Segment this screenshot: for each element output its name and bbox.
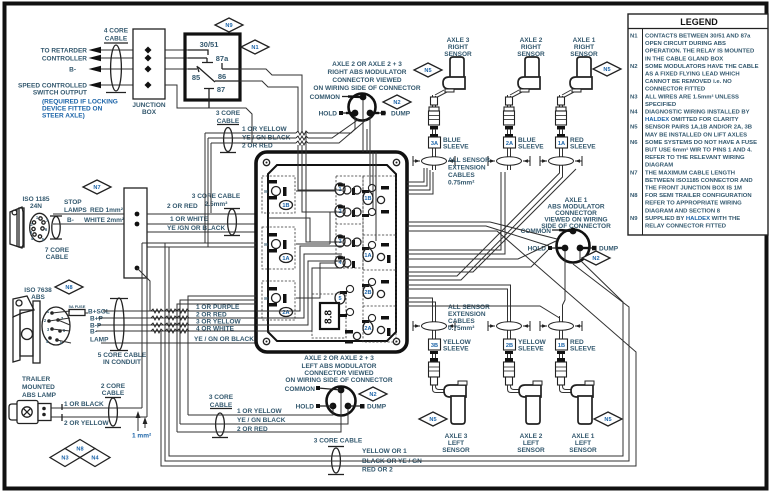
cable symbol 3core mid (212, 437, 228, 439)
svg-text:DUMP: DUMP (367, 404, 387, 411)
svg-text:1A: 1A (558, 141, 565, 147)
wire B-P (98, 324, 256, 326)
relay contact 86 (222, 63, 240, 69)
terminal group left3 (268, 287, 277, 291)
svg-text:ISO 7638: ISO 7638 (24, 287, 52, 294)
legend box (628, 14, 768, 235)
wire hold pin drop (308, 116, 355, 133)
svg-text:CONNECTOR FITTED: CONNECTOR FITTED (645, 87, 705, 93)
svg-text:AXLE 2: AXLE 2 (520, 433, 543, 440)
diamond N5 bottomright (594, 412, 622, 426)
svg-text:ABS LAMP: ABS LAMP (22, 392, 57, 399)
svg-text:85: 85 (192, 73, 200, 82)
svg-text:N2: N2 (369, 392, 376, 398)
svg-text:24N: 24N (30, 203, 42, 210)
svg-text:N2: N2 (630, 64, 638, 70)
svg-text:AXLE 1: AXLE 1 (572, 433, 595, 440)
cable symbol 3core 2.5 (224, 208, 240, 210)
svg-text:N5: N5 (424, 68, 431, 74)
wire jb2 drop diagonal (137, 268, 150, 311)
svg-text:STEER AXLE): STEER AXLE) (42, 113, 85, 120)
svg-text:N8: N8 (630, 193, 638, 199)
iso1185 pins (39, 217, 42, 220)
svg-text:LEGEND: LEGEND (680, 17, 718, 27)
svg-text:1B: 1B (364, 196, 371, 202)
cable symbol 3core bottom (328, 446, 344, 448)
svg-text:ABS: ABS (31, 294, 45, 301)
svg-text:JUNCTION: JUNCTION (132, 102, 166, 109)
svg-text:COMMON: COMMON (310, 94, 341, 101)
svg-text:3A: 3A (431, 141, 438, 147)
svg-text:LEFT: LEFT (575, 440, 591, 447)
diagnostic display 8.8 (320, 303, 339, 329)
ECU internal wire risers (298, 152, 376, 242)
relay contact 87a (188, 58, 213, 63)
wire B+P (98, 317, 256, 319)
svg-text:MAY BE INSTALLED ON LIFT AXLES: MAY BE INSTALLED ON LIFT AXLES (645, 132, 747, 138)
svg-text:RED 1mm²: RED 1mm² (90, 207, 124, 214)
svg-text:N2: N2 (592, 256, 599, 262)
pin common (360, 94, 367, 101)
wire jb1 to relay 30/51 (165, 49, 188, 51)
svg-text:87: 87 (217, 85, 225, 94)
svg-text:EXTENSION: EXTENSION (448, 165, 486, 172)
node b- (135, 222, 140, 227)
wire ecu loop 1 (188, 296, 256, 415)
wire jb1 to relay 87a (165, 57, 188, 59)
dashed compartment left 3 (262, 281, 295, 320)
wire ecu loop 3 (177, 304, 256, 432)
pin hold left (330, 403, 337, 410)
svg-text:TO RETARDER: TO RETARDER (41, 48, 88, 55)
ISO1185 connector body (30, 213, 50, 241)
screw top-left (263, 159, 269, 165)
wire ecu to axle1 conn b (407, 226, 549, 246)
svg-text:CABLE: CABLE (46, 254, 69, 261)
relay common out (215, 80, 240, 82)
svg-text:B-: B- (90, 329, 97, 336)
svg-text:1A: 1A (282, 256, 289, 262)
wire bottom run 1 (169, 247, 623, 456)
svg-text:EXTENSION: EXTENSION (448, 311, 486, 318)
svg-text:SOME MODULATORS HAVE THE CABLE: SOME MODULATORS HAVE THE CABLE (645, 64, 759, 70)
svg-text:N3: N3 (61, 456, 68, 462)
svg-text:DEVICE FITTED ON: DEVICE FITTED ON (42, 106, 103, 113)
ISO1185 connector bracket (10, 207, 23, 248)
svg-text:N6: N6 (630, 140, 638, 146)
svg-text:2B: 2B (506, 343, 513, 349)
svg-text:IN THE CABLE GLAND BOX: IN THE CABLE GLAND BOX (645, 56, 723, 62)
svg-text:LAMP: LAMP (90, 337, 109, 344)
svg-text:1 OR WHITE: 1 OR WHITE (170, 216, 209, 223)
svg-text:RELAY CONNECTOR FITTED: RELAY CONNECTOR FITTED (645, 224, 726, 230)
diamond N5 topleft (414, 63, 442, 77)
svg-text:HOLD: HOLD (319, 111, 338, 118)
svg-text:N5: N5 (603, 67, 610, 73)
arrow retarder 2 (89, 55, 102, 62)
wire ye/gn black top (208, 137, 296, 139)
svg-text:87a: 87a (216, 54, 229, 63)
terminal group left1 (268, 180, 277, 184)
diamond N5 bottomleft (419, 412, 447, 426)
modulator connector axle1 (557, 230, 590, 263)
wire B- run (96, 330, 256, 332)
ISO7638 connector bracket (13, 296, 34, 317)
svg-text:CABLES: CABLES (448, 318, 475, 325)
svg-text:M: M (264, 189, 268, 194)
svg-text:LEFT ABS MODULATOR: LEFT ABS MODULATOR (302, 363, 377, 370)
wire sensor3A to ecu (407, 168, 433, 194)
wire relay87a to bundle (240, 69, 302, 132)
wire mid yellow (188, 409, 333, 415)
diamond N9 (215, 18, 243, 32)
wire mid yegn (180, 409, 348, 424)
pin common axle1 (570, 228, 577, 235)
pin hold (352, 110, 359, 117)
svg-text:IN CONDUIT: IN CONDUIT (103, 359, 141, 366)
sleeve 2A (504, 137, 516, 148)
svg-text:2 OR RED: 2 OR RED (196, 312, 227, 319)
svg-text:5: 5 (338, 296, 341, 302)
sensor axle1 left (540, 316, 594, 424)
svg-text:3 OR YELLOW: 3 OR YELLOW (196, 319, 242, 326)
arrow retarder 1 (89, 47, 102, 54)
relay K1 (185, 34, 240, 100)
diamond N1 (241, 40, 269, 54)
pin common left (338, 387, 345, 394)
svg-text:ALL SENSOR: ALL SENSOR (448, 304, 490, 311)
arrows 1mm2 (137, 414, 139, 431)
svg-text:SLEEVE: SLEEVE (518, 346, 544, 353)
relay contact 30/51 (188, 50, 208, 55)
wire lamp2 riser (146, 247, 148, 417)
svg-text:CABLES: CABLES (448, 172, 475, 179)
svg-text:RIGHT: RIGHT (574, 44, 594, 51)
svg-text:3 CORE CABLE: 3 CORE CABLE (314, 438, 363, 445)
svg-text:SLEEVE: SLEEVE (570, 346, 596, 353)
svg-text:AXLE 2 OR AXLE 2 + 3: AXLE 2 OR AXLE 2 + 3 (304, 355, 374, 362)
7 core cable symbol (50, 215, 62, 217)
svg-text:SPECIFIED: SPECIFIED (645, 102, 676, 108)
wire B+SOL (85, 311, 256, 313)
wire diag extra (407, 169, 576, 272)
wire lamp 2 (51, 416, 147, 418)
wire sensor2A to ecu (407, 172, 505, 254)
svg-text:CABLE: CABLE (105, 36, 128, 43)
wire mid red (177, 393, 341, 432)
svg-text:SUPPLIED BY HALDEX WITH THE: SUPPLIED BY HALDEX WITH THE (645, 216, 740, 222)
relay switch blade (188, 66, 215, 82)
node dots in junction box (145, 47, 152, 54)
wire ecu to axle1 connector b (407, 250, 548, 267)
dashed compartment mid (336, 176, 363, 268)
svg-text:BUT USE 6mm² WIR TO PINS 1 AND: BUT USE 6mm² WIR TO PINS 1 AND 4. (645, 147, 752, 154)
wire jb1 to relay 85 (165, 68, 188, 70)
wire ecu to axle1 connector a (407, 241, 556, 259)
modulator connector right (349, 94, 376, 121)
svg-text:N4: N4 (91, 456, 99, 462)
svg-text:REFER TO THE RELEVANT WIRING: REFER TO THE RELEVANT WIRING (645, 155, 745, 161)
svg-text:CONNECTOR VIEWED: CONNECTOR VIEWED (332, 77, 402, 84)
diamond N2 top (383, 95, 411, 109)
svg-text:RIGHT: RIGHT (448, 44, 468, 51)
svg-text:BOX: BOX (142, 109, 157, 116)
sleeve 2B (504, 339, 516, 350)
wire switch output run (165, 85, 209, 108)
wire retarder2 (101, 57, 133, 59)
svg-text:STOP: STOP (64, 199, 82, 206)
svg-text:REFER TO APPROPRIATE WIRING: REFER TO APPROPRIATE WIRING (645, 201, 742, 207)
svg-text:3 CORE: 3 CORE (216, 110, 241, 117)
svg-text:DIAGRAM: DIAGRAM (645, 163, 673, 169)
ECU inner cover (268, 165, 396, 341)
dashed compartment display (312, 294, 346, 338)
svg-text:4 CORE: 4 CORE (104, 28, 129, 35)
svg-text:ALL WIRES ARE 1.5mm² UNLESS: ALL WIRES ARE 1.5mm² UNLESS (645, 93, 739, 100)
terminal group left2 (268, 233, 277, 237)
svg-text:CONTACTS BETWEEN 30/51 AND 87a: CONTACTS BETWEEN 30/51 AND 87a (645, 34, 751, 40)
node aux (135, 266, 140, 271)
wire dump pin drop (369, 116, 371, 152)
svg-text:OPERATION. THE RELAY IS MOUNTE: OPERATION. THE RELAY IS MOUNTED (645, 49, 754, 55)
wire stop lamps (53, 213, 124, 215)
svg-text:N7: N7 (630, 170, 638, 176)
svg-text:2 CORE: 2 CORE (101, 383, 126, 390)
sensor axle3 left (413, 316, 467, 424)
wire bottom run 3 (161, 231, 636, 466)
svg-text:SLEEVE: SLEEVE (518, 144, 544, 151)
svg-text:N9: N9 (630, 216, 638, 222)
wire bundle verticals into ecu (298, 131, 306, 152)
junction box 1 (133, 29, 165, 99)
svg-text:5A FUSE: 5A FUSE (69, 304, 86, 309)
svg-text:B-: B- (67, 217, 74, 224)
ECU internal wires (268, 191, 336, 298)
svg-text:N8: N8 (65, 285, 72, 291)
svg-text:DIAGRAM AND SECTION 8: DIAGRAM AND SECTION 8 (645, 208, 721, 214)
svg-text:3B: 3B (431, 343, 438, 349)
wire sensor1A to ecu (407, 166, 563, 280)
svg-text:ALL SENSOR: ALL SENSOR (448, 157, 490, 164)
wire ecu to sensor3B (407, 298, 436, 316)
sensor axle2 left (488, 316, 542, 424)
svg-text:OPEN CIRCUIT DURING ABS: OPEN CIRCUIT DURING ABS (645, 41, 726, 47)
wire switch output (101, 84, 133, 86)
svg-text:30/51: 30/51 (200, 40, 219, 49)
arrow switch output (89, 82, 102, 89)
wire ye/gn or black (147, 231, 256, 233)
svg-text:7 CORE: 7 CORE (45, 247, 70, 254)
svg-text:1 OR YELLOW: 1 OR YELLOW (242, 126, 288, 133)
svg-text:RIGHT ABS MODULATOR: RIGHT ABS MODULATOR (328, 69, 407, 76)
svg-text:N5: N5 (429, 417, 436, 423)
svg-text:FOR SEMI TRAILER CONFIGURATION: FOR SEMI TRAILER CONFIGURATION (645, 193, 752, 199)
sleeve 1B (556, 339, 568, 350)
svg-text:SENSOR: SENSOR (569, 447, 597, 454)
pin dump (367, 110, 374, 117)
svg-text:CONTROLLER: CONTROLLER (42, 56, 87, 63)
svg-text:1B: 1B (558, 343, 565, 349)
wire bottom run 2 (165, 243, 629, 461)
svg-text:SLEEVE: SLEEVE (570, 144, 596, 151)
svg-text:AXLE 2 OR AXLE 2 + 3: AXLE 2 OR AXLE 2 + 3 (332, 61, 402, 68)
wire ecu to sensor1B (407, 306, 560, 322)
sleeve 3B (429, 339, 441, 350)
svg-text:DUMP: DUMP (599, 246, 619, 253)
diamond N8 cluster (65, 440, 95, 458)
svg-text:5 CORE CABLE: 5 CORE CABLE (98, 352, 147, 359)
wire common pin drop (362, 100, 364, 152)
svg-text:SPEED CONTROLLED: SPEED CONTROLLED (18, 83, 87, 90)
diamond N5 topright (593, 62, 621, 76)
wire connector to twist (308, 119, 367, 152)
junction box 2 (124, 188, 147, 278)
svg-text:1 OR BLACK: 1 OR BLACK (64, 401, 104, 408)
svg-text:(REQUIRED IF LOCKING: (REQUIRED IF LOCKING (42, 99, 118, 106)
svg-text:2 OR RED: 2 OR RED (167, 203, 198, 210)
svg-text:YE /GN OR BLACK: YE /GN OR BLACK (167, 225, 225, 232)
wire ecu to sensor2B (407, 285, 511, 316)
svg-text:B+P: B+P (90, 316, 103, 323)
svg-text:RIGHT: RIGHT (521, 44, 541, 51)
svg-text:CABLE: CABLE (102, 390, 125, 397)
svg-text:ON WIRING SIDE OF CONNECTOR: ON WIRING SIDE OF CONNECTOR (313, 85, 420, 92)
wire B- white (53, 223, 124, 225)
svg-text:SENSOR: SENSOR (442, 447, 470, 454)
wire switch run to bundle (209, 108, 252, 143)
trailer ABS lamp (9, 404, 18, 420)
dashed compartment left 1 (262, 176, 295, 213)
wire 1 or yellow top (205, 132, 296, 134)
svg-text:N8: N8 (76, 447, 83, 453)
twist symbols iso7638 bundle (151, 309, 189, 333)
svg-text:SENSOR PAIRS 1A,1B AND/OR 2A,: SENSOR PAIRS 1A,1B AND/OR 2A, 3B (645, 125, 752, 131)
svg-text:N9: N9 (225, 23, 232, 29)
svg-text:BETWEEN ISO1185 CONNECTOR AND: BETWEEN ISO1185 CONNECTOR AND (645, 178, 753, 184)
svg-text:MOUNTED: MOUNTED (22, 384, 55, 391)
screw top-right (393, 159, 399, 165)
relay contact 87 (204, 89, 214, 109)
svg-text:AXLE 1: AXLE 1 (573, 37, 596, 44)
svg-text:N4: N4 (630, 110, 638, 116)
wire 2 or red (147, 213, 256, 215)
svg-text:DUMP: DUMP (391, 111, 411, 118)
svg-text:LEFT: LEFT (523, 440, 539, 447)
svg-text:B-: B- (69, 67, 76, 74)
svg-text:1 OR PURPLE: 1 OR PURPLE (196, 304, 240, 311)
svg-text:RED OR 2: RED OR 2 (362, 467, 393, 474)
iso7638 pins (50, 311, 54, 315)
cable symbol 2 core (105, 397, 121, 399)
svg-text:TRAILER: TRAILER (22, 376, 50, 383)
cable symbol 3core top (220, 152, 236, 154)
svg-text:N1: N1 (251, 45, 258, 51)
sleeve 3A (429, 137, 441, 148)
ECU housing (256, 152, 407, 352)
diamond N3 (50, 449, 80, 467)
svg-text:2 OR YELLOW: 2 OR YELLOW (64, 420, 110, 427)
diamond N8 top (55, 280, 83, 294)
svg-text:YE / GN BLACK: YE / GN BLACK (237, 417, 286, 424)
svg-text:HALDEX OMITTED FOR CLARITY: HALDEX OMITTED FOR CLARITY (645, 117, 739, 123)
wire 1 or white (147, 223, 256, 225)
svg-text:N5: N5 (604, 417, 611, 423)
svg-text:HOLD: HOLD (296, 404, 315, 411)
modulator connector left (327, 387, 356, 416)
pin stub wires (49, 311, 71, 343)
sleeve 1A (556, 137, 568, 148)
wire 2 or red top (211, 142, 296, 144)
svg-text:N2: N2 (393, 100, 400, 106)
svg-text:SOME SYSTEMS DO NOT HAVE A FUS: SOME SYSTEMS DO NOT HAVE A FUSE (645, 140, 757, 146)
wire axle1 hold to sensor1B (563, 251, 566, 318)
svg-text:1B: 1B (282, 203, 289, 209)
tick lamp labels (61, 404, 63, 421)
screw bottom-right (393, 338, 399, 344)
svg-text:B+SOL: B+SOL (88, 309, 110, 316)
diamond N2 axle1 (582, 251, 610, 265)
svg-text:1 mm²: 1 mm² (132, 433, 152, 440)
pin hold axle1 (562, 245, 569, 252)
svg-text:N1: N1 (630, 34, 638, 40)
pin dump axle1 (577, 245, 584, 252)
pin dump left (345, 403, 352, 410)
svg-text:AS A FIXED FLYING LEAD WHICH: AS A FIXED FLYING LEAD WHICH (645, 72, 740, 78)
svg-text:86: 86 (218, 72, 226, 81)
dashed compartment right (363, 176, 396, 342)
svg-text:SENSOR: SENSOR (517, 447, 545, 454)
svg-text:CANNOT BE REMOVED i.e. NO: CANNOT BE REMOVED i.e. NO (645, 79, 732, 85)
svg-text:2 OR RED: 2 OR RED (242, 143, 273, 150)
arrow B- (89, 66, 102, 73)
svg-text:ISO 1185: ISO 1185 (22, 196, 49, 203)
svg-text:LAMPS: LAMPS (64, 207, 87, 214)
wire B- (101, 68, 133, 70)
diamond N7 (83, 180, 111, 194)
svg-text:N3: N3 (630, 94, 638, 100)
svg-text:2B: 2B (364, 290, 371, 296)
wire ecu to axle1 conn a (407, 222, 557, 239)
svg-text:YELLOW OR 1: YELLOW OR 1 (362, 448, 407, 455)
svg-text:N7: N7 (93, 185, 100, 191)
ECU internal bundle from iso7638 (256, 246, 342, 331)
dashed compartment left 2 (262, 227, 295, 269)
wire lamp1 riser (141, 243, 143, 408)
svg-text:M: M (264, 296, 268, 301)
svg-text:2A: 2A (364, 326, 371, 332)
svg-text:SWITCH OUTPUT: SWITCH OUTPUT (33, 90, 87, 97)
svg-text:4 OR WHITE: 4 OR WHITE (196, 326, 235, 333)
svg-text:ON WIRING SIDE OF CONNECTOR: ON WIRING SIDE OF CONNECTOR (285, 377, 392, 384)
screw bottom-left (263, 338, 269, 344)
svg-text:AXLE 3: AXLE 3 (445, 433, 468, 440)
node stop (135, 212, 140, 217)
svg-text:AXLE 3: AXLE 3 (447, 37, 470, 44)
ISO7638 connector body (42, 307, 70, 345)
svg-text:CONNECTOR VIEWED: CONNECTOR VIEWED (304, 370, 374, 377)
svg-text:SLEEVE: SLEEVE (443, 346, 469, 353)
svg-text:WHITE 2mm²: WHITE 2mm² (84, 217, 125, 224)
svg-text:YE / GN OR BLACK: YE / GN OR BLACK (194, 336, 254, 343)
svg-text:8.8: 8.8 (324, 310, 335, 324)
terminals right column (362, 184, 376, 193)
svg-text:3 CORE: 3 CORE (209, 394, 234, 401)
svg-text:N5: N5 (630, 125, 638, 131)
svg-text:DIAGNOSTIC WIRING INSTALLED BY: DIAGNOSTIC WIRING INSTALLED BY (645, 110, 750, 116)
svg-text:THE MAXIMUM CABLE LENGTH: THE MAXIMUM CABLE LENGTH (645, 170, 735, 176)
svg-text:0.75mm²: 0.75mm² (448, 325, 475, 332)
svg-text:SLEEVE: SLEEVE (443, 144, 469, 151)
